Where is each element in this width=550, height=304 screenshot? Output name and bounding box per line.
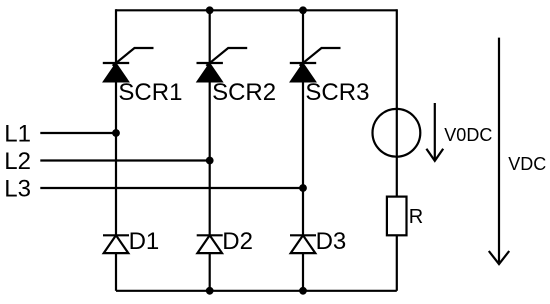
svg-text:L1: L1 (4, 121, 31, 148)
wire col2 lower (209, 253, 211, 291)
svg-text:SCR1: SCR1 (118, 79, 182, 106)
wire bottom rail (116, 290, 397, 292)
wire right column upper (396, 9, 398, 196)
SCR2 (197, 48, 248, 82)
node L2 junction (206, 157, 214, 165)
svg-text:D1: D1 (129, 228, 160, 255)
wire top rail (116, 9, 397, 11)
wire right column lower (396, 235, 398, 290)
arrow V0DC (426, 103, 443, 161)
node junction top col3 (299, 6, 307, 14)
diode D3 (290, 235, 316, 253)
arrow VDC (489, 38, 509, 265)
wire L3 (40, 187, 303, 189)
svg-text:R: R (409, 206, 423, 228)
wire L2 (40, 159, 209, 161)
svg-text:D3: D3 (316, 228, 347, 255)
SCR3 (290, 48, 341, 82)
wire col2 middle (209, 82, 211, 235)
wire col3 upper (302, 9, 304, 63)
node junction top col2 (206, 6, 214, 14)
svg-text:VDC: VDC (508, 154, 546, 174)
node junction bottom col3 (299, 287, 307, 295)
wire col3 lower (302, 253, 304, 291)
node L3 junction (299, 184, 307, 192)
node L1 junction (112, 129, 120, 137)
resistor R (387, 197, 407, 236)
svg-text:D2: D2 (222, 228, 253, 255)
wire col2 upper (209, 9, 211, 63)
diode D2 (197, 235, 223, 253)
svg-text:V0DC: V0DC (444, 125, 492, 145)
source V0 circle (373, 109, 421, 157)
wire col1 middle (115, 82, 117, 235)
wire col3 middle (302, 82, 304, 235)
wire col1 upper (115, 9, 117, 63)
svg-text:L3: L3 (4, 176, 31, 203)
node junction bottom col2 (206, 287, 214, 295)
SCR1 (103, 48, 154, 82)
svg-text:SCR2: SCR2 (212, 79, 276, 106)
wire L1 (40, 132, 116, 134)
svg-text:SCR3: SCR3 (305, 79, 369, 106)
wire col1 lower (115, 253, 117, 291)
svg-text:L2: L2 (4, 148, 31, 175)
diode D1 (103, 235, 129, 253)
